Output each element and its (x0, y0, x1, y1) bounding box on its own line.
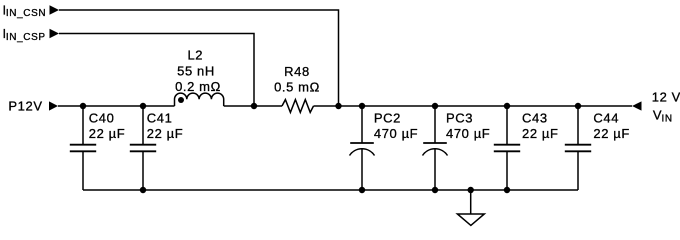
svg-text:IN: IN (662, 113, 673, 124)
svg-text:22 µF: 22 µF (522, 126, 559, 141)
svg-text:L2: L2 (187, 48, 203, 63)
svg-text:470 µF: 470 µF (446, 126, 490, 141)
svg-text:0.5 mΩ: 0.5 mΩ (274, 80, 320, 95)
svg-text:55 nH: 55 nH (177, 63, 215, 78)
svg-text:R48: R48 (284, 64, 310, 79)
svg-text:0.2 mΩ: 0.2 mΩ (175, 79, 221, 94)
svg-text:C41: C41 (147, 111, 173, 126)
svg-text:C43: C43 (522, 111, 548, 126)
svg-text:IN_CSP: IN_CSP (6, 32, 46, 43)
svg-text:C44: C44 (593, 111, 619, 126)
svg-text:12 V: 12 V (652, 90, 680, 105)
svg-text:22 µF: 22 µF (89, 126, 126, 141)
svg-text:IN_CSN: IN_CSN (6, 8, 46, 19)
svg-text:PC2: PC2 (374, 111, 401, 126)
svg-text:470 µF: 470 µF (374, 126, 418, 141)
svg-text:22 µF: 22 µF (147, 126, 184, 141)
svg-text:PC3: PC3 (446, 111, 473, 126)
svg-text:C40: C40 (89, 111, 115, 126)
svg-text:22 µF: 22 µF (593, 126, 630, 141)
svg-text:P12V: P12V (8, 99, 42, 114)
